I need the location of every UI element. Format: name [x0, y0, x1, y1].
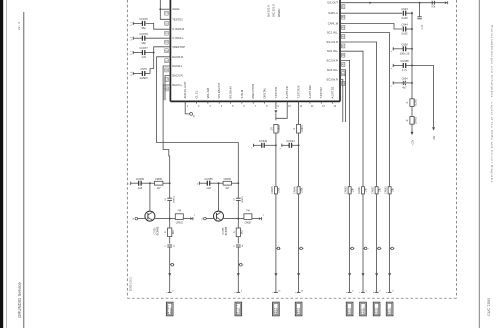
svg-text:BU660: BU660: [277, 308, 279, 314]
terminal (open circle) with label: [190, 113, 196, 118]
svg-text:CC640: CC640: [259, 139, 268, 143]
junction VREFTOP/CC677: [153, 52, 155, 54]
svg-text:T.2ST.CR: T.2ST.CR: [274, 87, 278, 99]
IC bottom pin MAC.DYNS (pin 7): [251, 84, 257, 108]
ground for CC644: [280, 144, 282, 150]
svg-text:0u33: 0u33: [402, 32, 408, 36]
IC right pin SC1.IN.L (pin 48): [327, 31, 345, 39]
svg-text:4k7: 4k7: [225, 187, 230, 190]
ground for C656: [391, 47, 393, 53]
connector foot: [297, 291, 301, 293]
svg-text:1n5: 1n5: [141, 55, 146, 59]
svg-text:C675: C675: [140, 67, 147, 71]
svg-text:VREFTOP: VREFTOP: [172, 45, 185, 49]
IC bottom pin CL.CL (pin 2): [194, 90, 200, 108]
svg-text:L.03: L.03: [422, 24, 424, 29]
supply arrow +8V: [432, 127, 436, 140]
svg-text:DMAC: DMAC: [277, 8, 281, 17]
svg-text:MAC.DYNS: MAC.DYNS: [251, 84, 255, 99]
capacitor CC676 (36p) to pin C.INCS.R: [130, 17, 170, 30]
svg-text:S.IN.M: S.IN.M: [240, 89, 244, 98]
board outline (dashed) right edge: [456, 0, 458, 298]
IC bottom pin BS.DA.IN (pin 5): [228, 87, 234, 108]
svg-text:BU660: BU660: [299, 308, 301, 314]
svg-text:BC848B: BC848B: [226, 226, 228, 235]
IC right pin SC1.IN.R (pin 47): [326, 40, 345, 48]
connector socket SC1 R: [373, 302, 380, 316]
signal arrow: [348, 273, 351, 276]
signal direction arrow: [168, 273, 171, 276]
svg-text:22 - 4: 22 - 4: [17, 22, 21, 30]
resistor CR640 on chain A: [274, 124, 278, 133]
svg-text:DIGITAL: DIGITAL: [262, 87, 266, 98]
wire line to connector: [349, 194, 351, 293]
resistor CR653 on input line: [388, 187, 391, 194]
svg-text:SC3.IN.L: SC3.IN.L: [327, 68, 339, 72]
resistor CR656 (4k7) horizontal: [219, 178, 239, 190]
connector socket AF-OUT R: [235, 302, 242, 316]
signal arrow: [297, 273, 300, 276]
terminal circle on line: [238, 264, 240, 266]
junction: [411, 48, 413, 50]
IC bottom pin WS.DA.OUT (pin 4): [217, 82, 223, 108]
wire chain to connector: [298, 194, 300, 293]
wire CAPL.M jog to C644: [340, 24, 402, 30]
ground for CC640: [251, 144, 254, 150]
resistor CR652 output series: [170, 210, 191, 224]
svg-text:BC848B: BC848B: [157, 226, 159, 235]
junction: [411, 82, 413, 84]
svg-text:2R: 2R: [270, 127, 273, 130]
wire pin AUD.CL.OUT down to test terminal: [185, 101, 189, 114]
capacitor CC655b on line (foil): [234, 196, 244, 203]
connector socket AUD R: [273, 302, 280, 316]
svg-text:CC677: CC677: [139, 46, 148, 50]
svg-text:36p: 36p: [141, 26, 146, 30]
svg-text:CR640: CR640: [278, 124, 281, 132]
wire to connector: [237, 247, 239, 292]
IC right pin SC2.IN.L (pin 46): [327, 49, 345, 57]
supply arrow +12V: [411, 132, 415, 146]
svg-text:+12V: +12V: [411, 139, 414, 145]
svg-text:Platinenabbildungen und Schalt: Platinenabbildungen und Schaltpläne · La…: [490, 25, 494, 183]
IC bottom pin VDL.AM (pin 3): [206, 87, 212, 108]
wire: [275, 133, 277, 186]
svg-text:CR646: CR646: [294, 186, 297, 194]
capacitor CC677 (1n5) to VREFTOP node: [130, 46, 153, 59]
IC right pin SC2.IN.R (pin 45): [326, 58, 345, 66]
svg-text:GC660: GC660: [415, 98, 417, 106]
svg-text:(MKC): (MKC): [242, 196, 244, 203]
wire chain to connector: [275, 194, 277, 293]
connector socket SC2 L: [360, 302, 367, 316]
resistor CR645 on chain: [274, 187, 277, 194]
capacitor C643 (0u33): [401, 7, 412, 20]
wire branch right to +8V drop: [412, 66, 434, 128]
svg-text:C644: C644: [401, 23, 408, 27]
wire base drop: [218, 183, 220, 211]
wire net SC3.IN.L stub down: [340, 70, 346, 122]
capacitor C656 (100u 25): [393, 48, 403, 50]
input terminal: [133, 217, 145, 220]
IC right pin SC3.IN.R (pin 43): [326, 78, 345, 86]
terminal circle: [299, 247, 301, 249]
svg-text:CR652: CR652: [176, 223, 184, 225]
wire net SC2.IN.L: right then down: [340, 51, 363, 186]
IC IC650 audio DSP (body, cut off at page top): [170, 0, 340, 101]
svg-text:CR653: CR653: [385, 186, 388, 194]
inductor GC660 on column: [407, 98, 417, 106]
junction chain B / CC644: [298, 144, 300, 146]
svg-text:AGGL: AGGL: [172, 7, 180, 11]
svg-text:BS.DA.IN: BS.DA.IN: [228, 87, 232, 99]
IC bottom pin A.2ST.D2 (pin 14): [331, 86, 337, 108]
wire line to connector: [362, 194, 364, 293]
svg-text:BU660: BU660: [377, 308, 379, 314]
signal arrow: [362, 273, 365, 276]
wire net DACM.L: pin left, down, jog, down to stage 1: [163, 66, 170, 183]
capacitor CC650 (1u8): [131, 177, 150, 190]
svg-text:CAPL.A: CAPL.A: [328, 11, 338, 15]
svg-text:BU660: BU660: [350, 308, 352, 314]
signal arrow: [388, 273, 391, 276]
junction base node: [218, 182, 220, 184]
IC right pin SC3.IN.L (pin 44): [327, 68, 345, 76]
resistor on line below transistor: [168, 228, 172, 237]
junction emitter node: [237, 218, 239, 220]
svg-text:R: R: [293, 128, 296, 130]
ground for CC650: [128, 182, 130, 186]
svg-text:100k: 100k: [300, 187, 303, 193]
IC bottom pin A.2ST.D26 (pin 12): [308, 85, 314, 108]
output terminal arrow: [190, 215, 196, 220]
svg-text:R: R: [233, 231, 236, 233]
transistor CT655 (AF amplifier): [214, 211, 228, 235]
IC bottom pin DIGITAL (pin 8): [262, 87, 268, 108]
wire pin 10 down (chain A): [275, 101, 277, 109]
IC left pin DACM.R (pin 12): [165, 55, 183, 63]
output arrow right: [445, 1, 448, 4]
signal arrow: [375, 273, 378, 276]
svg-text:BU660: BU660: [364, 308, 366, 314]
junction chain A / CC640: [275, 144, 277, 146]
svg-text:4.7u: 4.7u: [402, 68, 408, 72]
svg-text:C643: C643: [401, 7, 408, 11]
svg-text:CC650: CC650: [136, 177, 145, 181]
svg-text:0u33: 0u33: [402, 16, 408, 20]
svg-text:CUC 7350: CUC 7350: [487, 298, 491, 316]
IC bottom pin T.2ST.R26 (pin 11): [297, 85, 303, 108]
svg-text:VDL.AM: VDL.AM: [206, 87, 210, 98]
resistor CR651 (4k7) horizontal: [150, 178, 170, 190]
svg-text:R: R: [164, 231, 167, 233]
svg-text:SC3.IN.R: SC3.IN.R: [326, 78, 338, 82]
resistor on line below transistor: [236, 228, 240, 237]
wire branch to AGGL: [160, 8, 170, 10]
junction: [411, 12, 413, 14]
wire stub DACX.R: [165, 76, 170, 101]
connector foot: [375, 291, 379, 293]
IC right pin CAPL.M (pin 49): [328, 22, 345, 30]
wire chain A continue: [275, 113, 277, 120]
IC designator text (rotated): [267, 4, 282, 17]
svg-text:I2S.OUT: I2S.OUT: [327, 1, 338, 5]
terminal circle on line: [170, 264, 172, 266]
resistor CR651 on input line: [362, 187, 365, 194]
connector foot: [274, 291, 278, 293]
svg-text:+8V: +8V: [433, 135, 436, 140]
junction at line: [237, 182, 239, 184]
wire net SC2.IN.R: right then down: [340, 60, 350, 186]
resistor CR652 on input line: [375, 187, 378, 194]
IC left pin C.INCS.R (pin 11): [165, 27, 184, 35]
resistor CR646 on chain: [297, 187, 300, 194]
ground for C664: [391, 81, 393, 87]
svg-text:1u8: 1u8: [138, 186, 143, 190]
svg-text:CR656: CR656: [224, 178, 232, 181]
wire supply column: [411, 12, 413, 99]
svg-text:DA 251-5: DA 251-5: [267, 5, 271, 17]
svg-text:SIC 251-5: SIC 251-5: [272, 4, 276, 17]
svg-text:CL.CL: CL.CL: [194, 90, 198, 98]
svg-text:WS.DA.OUT: WS.DA.OUT: [217, 82, 221, 98]
IC left pin DACM.L (pin 53): [165, 64, 183, 72]
direction arrow on chain A: [274, 110, 277, 113]
IC left pin VREFTOP (pin 54): [165, 45, 186, 53]
wire junction down to C675: [150, 53, 154, 74]
junction AGGL branch: [159, 8, 161, 10]
capacitor C642 to ground (L.03): [417, 3, 423, 30]
svg-text:SC2.IN.R: SC2.IN.R: [326, 58, 338, 62]
svg-text:CC644: CC644: [286, 139, 295, 143]
svg-text:A.2ST.D2: A.2ST.D2: [331, 86, 335, 98]
wire line to connector: [376, 194, 378, 293]
junction: [411, 28, 413, 30]
svg-text:39p: 39p: [141, 41, 146, 45]
ground for CC665: [391, 64, 393, 70]
wire emitter to line: [155, 218, 170, 220]
signal arrow: [274, 273, 277, 276]
board outline (dashed) bottom edge: [127, 297, 456, 299]
IC bottom pin T.2ST.CR (pin 9): [274, 87, 280, 108]
svg-text:T.2ST.R26: T.2ST.R26: [297, 85, 301, 98]
input terminal: [201, 217, 213, 220]
capacitor C644 (0u33): [401, 23, 412, 36]
capacitor CC678 (39p) to pin C.INCS.L: [130, 32, 170, 45]
capacitor CC640 (chain A decoupling): [254, 144, 262, 146]
capacitor C675 (4u/50V) to VREFTOP net: [130, 67, 150, 80]
capacitor CC650b on line (foil): [165, 196, 175, 203]
svg-text:CR657: CR657: [244, 223, 252, 225]
connector socket SC1 L: [386, 302, 393, 316]
IC left pin TESTD2 (pin 16): [165, 17, 183, 25]
svg-text:GRUNDIG Service: GRUNDIG Service: [17, 282, 22, 318]
svg-text:A.2ST.CR: A.2ST.CR: [285, 86, 289, 98]
output terminal arrow: [259, 215, 265, 220]
svg-text:LR641: LR641: [301, 125, 304, 133]
svg-text:BU660: BU660: [170, 308, 172, 314]
capacitor CC665 (4.7u): [393, 65, 403, 67]
svg-text:4u/50V: 4u/50V: [139, 76, 148, 80]
svg-text:T.2ST.R2: T.2ST.R2: [319, 87, 323, 99]
svg-text:C656: C656: [401, 42, 408, 46]
connector pin foot: [236, 291, 240, 293]
capacitor C640 on rail: [431, 1, 436, 9]
capacitor on line (vertical): [165, 244, 175, 247]
IC bottom pin A.2ST.CR (pin 10): [285, 86, 291, 108]
ground for CC655: [197, 182, 199, 186]
connector foot: [388, 291, 392, 293]
svg-text:DACX.R: DACX.R: [172, 74, 182, 78]
IC right pin CAPL.A (pin 50): [328, 11, 345, 19]
connector socket AUD L: [295, 302, 302, 316]
wire net SC1.IN.R: right then down: [340, 42, 377, 186]
svg-text:TESTD2: TESTD2: [172, 17, 183, 21]
terminal circle: [377, 247, 379, 249]
wire: [411, 106, 413, 116]
connector foot: [348, 291, 352, 293]
transistor CT650 (AF amplifier): [145, 211, 159, 235]
svg-text:100u 25: 100u 25: [400, 51, 410, 55]
svg-text:C.INCS.R: C.INCS.R: [172, 27, 184, 31]
svg-text:CR651: CR651: [358, 186, 361, 194]
svg-text:CR652: CR652: [372, 186, 375, 194]
wire net DACM.R: pin left, down, long run right, down to stage 2: [157, 57, 239, 183]
svg-text:DACM.L: DACM.L: [172, 64, 183, 68]
IC bottom pin T.2ST.R2 (pin 13): [319, 87, 325, 108]
svg-text:4u7: 4u7: [402, 87, 407, 90]
wire stub DACX.L: [163, 85, 170, 100]
svg-text:C.INCS.L: C.INCS.L: [172, 36, 184, 40]
resistor R641 on chain B: [297, 124, 301, 133]
svg-text:BU660: BU660: [390, 308, 392, 314]
svg-text:CR660: CR660: [415, 116, 417, 124]
board outline (dashed) left edge: [126, 0, 128, 298]
IC left pin DACX.L (pin 52): [165, 83, 183, 91]
svg-text:29305-102.01: 29305-102.01: [131, 276, 133, 291]
terminal circle: [276, 247, 278, 249]
junction at line: [169, 182, 171, 184]
svg-text:SC1.IN.L: SC1.IN.L: [327, 31, 339, 35]
IC bottom pin AUD.CL.OUT (pin 1): [183, 81, 189, 108]
wire to connector: [169, 247, 171, 292]
junction base node: [149, 182, 151, 184]
svg-text:G: G: [407, 101, 409, 103]
terminal circle: [390, 247, 392, 249]
wire: [237, 183, 239, 198]
IC left pin C.INCS.L (pin 10): [165, 36, 184, 44]
svg-text:SC1.IN.R: SC1.IN.R: [326, 40, 338, 44]
junction: [411, 65, 413, 67]
IC right pin I2S.OUT (pin 51): [327, 1, 345, 9]
svg-text:CR645: CR645: [271, 186, 274, 194]
wire emitter to line: [224, 218, 239, 220]
connector socket AF-OUT L: [166, 302, 173, 316]
wire line to connector: [389, 194, 391, 293]
svg-text:3k3: 3k3: [241, 230, 244, 235]
wire base drop: [149, 183, 151, 211]
wire from page top to TESTD2: [160, 0, 170, 19]
terminal circle: [350, 247, 352, 249]
svg-text:AUD.CL.OUT: AUD.CL.OUT: [183, 81, 187, 98]
svg-text:CT650: CT650: [155, 227, 157, 235]
svg-text:SC2.IN.L: SC2.IN.L: [327, 49, 339, 53]
svg-text:1u8: 1u8: [206, 186, 211, 190]
wire net SC3.IN.R stub down: [340, 80, 343, 123]
svg-text:A.2ST.D26: A.2ST.D26: [308, 85, 312, 99]
connector pin foot: [168, 291, 172, 293]
svg-text:C664: C664: [402, 78, 409, 81]
wire pin 12 down (chain B): [298, 101, 300, 186]
svg-text:CT655: CT655: [223, 227, 225, 235]
svg-text:CC676: CC676: [139, 17, 148, 21]
svg-text:CR650: CR650: [345, 186, 348, 194]
wire pin 11 jog to chain A: [276, 101, 287, 118]
svg-text:(MKC): (MKC): [173, 196, 175, 203]
wire: [169, 183, 171, 198]
svg-text:DACM.R: DACM.R: [172, 55, 183, 59]
capacitor C664 (4u7, polarized): [393, 78, 412, 90]
svg-text:BU660: BU660: [239, 308, 241, 314]
junction: [419, 2, 421, 4]
capacitor on line (vertical): [234, 244, 244, 247]
resistor CR660 on column: [407, 116, 417, 124]
wire net SC1.IN.L: right then down: [340, 33, 390, 187]
resistor CR650 on input line: [348, 187, 351, 194]
IC left pin AGGL (pin 17): [165, 7, 181, 15]
junction emitter node: [169, 218, 171, 220]
capacitor CC655 (1u8): [199, 177, 218, 190]
svg-text:CR651: CR651: [155, 178, 163, 181]
wire CAPL.A to C643: [340, 12, 402, 14]
svg-text:CC665: CC665: [400, 59, 409, 63]
svg-text:100k: 100k: [278, 187, 281, 193]
IC left pin DACX.R (pin 13): [165, 74, 183, 82]
wire net I2S.OUT top rail: [340, 2, 445, 4]
terminal circle: [363, 247, 365, 249]
connector foot: [361, 291, 365, 293]
junction: [369, 2, 371, 4]
svg-text:CC678: CC678: [139, 32, 148, 36]
svg-text:DACX.L: DACX.L: [172, 83, 182, 87]
resistor CR657 output series: [238, 210, 258, 224]
connector socket SC2 R: [346, 302, 353, 316]
capacitor CC644 (chain B decoupling): [282, 144, 289, 146]
svg-text:4k7: 4k7: [157, 187, 162, 190]
svg-text:CC655: CC655: [204, 177, 213, 181]
wire VREFTOP to CC677 junction: [154, 47, 171, 53]
svg-text:CAPL.M: CAPL.M: [328, 22, 339, 26]
svg-text:3k3: 3k3: [172, 230, 175, 235]
IC bottom pin S.IN.M (pin 6): [240, 89, 246, 108]
wire to supply arrow: [411, 124, 413, 132]
signal direction arrow: [237, 273, 240, 276]
